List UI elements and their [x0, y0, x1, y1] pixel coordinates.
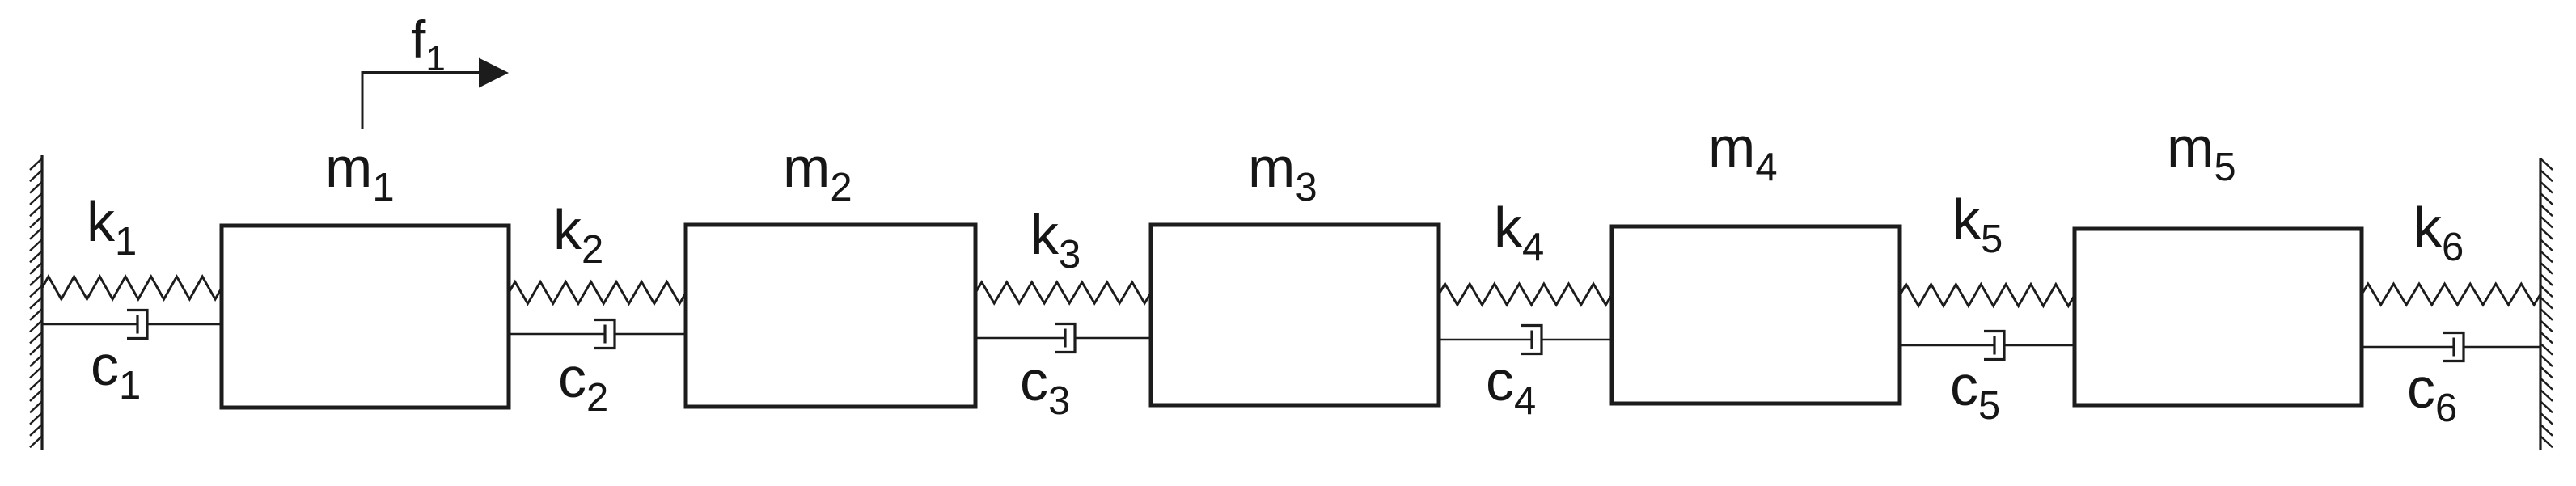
spring k6	[2362, 284, 2540, 305]
damper c2 cylinder	[594, 320, 615, 349]
damper c2	[509, 320, 686, 349]
damper c3 left rod	[975, 337, 1065, 339]
spring k3	[975, 282, 1151, 303]
label k1	[87, 190, 137, 264]
right wall line	[2539, 158, 2541, 450]
mass m5	[2075, 229, 2362, 405]
damper c6 cylinder	[2443, 333, 2464, 361]
damper c5 right rod	[2004, 344, 2075, 346]
damper c3 cylinder	[1055, 324, 1075, 353]
label f1	[411, 10, 446, 78]
damper c5 cylinder	[1984, 332, 2004, 360]
mass m4	[1612, 226, 1900, 404]
label m3	[1248, 136, 1318, 209]
damper c6 right rod	[2464, 346, 2540, 348]
spring k4	[1439, 284, 1612, 305]
label c4	[1486, 349, 1536, 423]
damper c3	[975, 324, 1151, 353]
label m4	[1708, 116, 1778, 189]
damper c4 piston	[1530, 331, 1533, 349]
damper c4 left rod	[1439, 339, 1532, 340]
damper c2 right rod	[615, 333, 686, 335]
damper c4	[1439, 326, 1612, 354]
label k3	[1030, 203, 1081, 277]
label m1	[325, 136, 395, 209]
damper c6 piston	[2452, 338, 2455, 357]
mass m1	[222, 226, 509, 408]
label c3	[1020, 349, 1070, 423]
left wall hatching	[30, 158, 42, 447]
damper c5	[1900, 332, 2075, 360]
damper c4 right rod	[1542, 339, 1612, 340]
label k5	[1952, 188, 2003, 261]
label k6	[2413, 196, 2464, 269]
damper c1 piston	[136, 315, 138, 334]
label m5	[2167, 116, 2236, 189]
damper c6 left rod	[2362, 346, 2454, 348]
label m2	[783, 136, 852, 209]
force arrow f1 vertical segment	[362, 73, 364, 129]
right wall hatching	[2540, 158, 2553, 447]
force arrow f1	[362, 58, 510, 130]
mass m2	[686, 225, 975, 407]
spring k2	[509, 282, 686, 304]
damper c1	[42, 311, 222, 339]
damper c2 piston	[603, 325, 606, 344]
damper c3 right rod	[1075, 337, 1151, 339]
label c2	[558, 346, 608, 420]
damper c1 right rod	[147, 323, 222, 325]
damper c1 left rod	[42, 323, 137, 325]
damper c5 left rod	[1900, 344, 1994, 346]
label k2	[553, 198, 603, 272]
damper c5 piston	[1993, 336, 1995, 355]
label k4	[1494, 196, 1544, 269]
mass m3	[1151, 225, 1439, 405]
label c1	[91, 334, 141, 408]
damper c2 left rod	[509, 333, 605, 335]
spring k1	[42, 277, 222, 299]
label c5	[1950, 354, 2000, 428]
damper c3 piston	[1064, 329, 1066, 348]
left wall line	[40, 155, 43, 450]
force arrow f1 head	[479, 58, 509, 88]
damper c1 cylinder	[127, 311, 147, 339]
label c6	[2407, 357, 2457, 430]
spring k5	[1900, 285, 2075, 306]
damper c4 cylinder	[1521, 326, 1542, 354]
force arrow f1 horizontal segment	[362, 71, 482, 74]
damper c6	[2362, 333, 2540, 361]
